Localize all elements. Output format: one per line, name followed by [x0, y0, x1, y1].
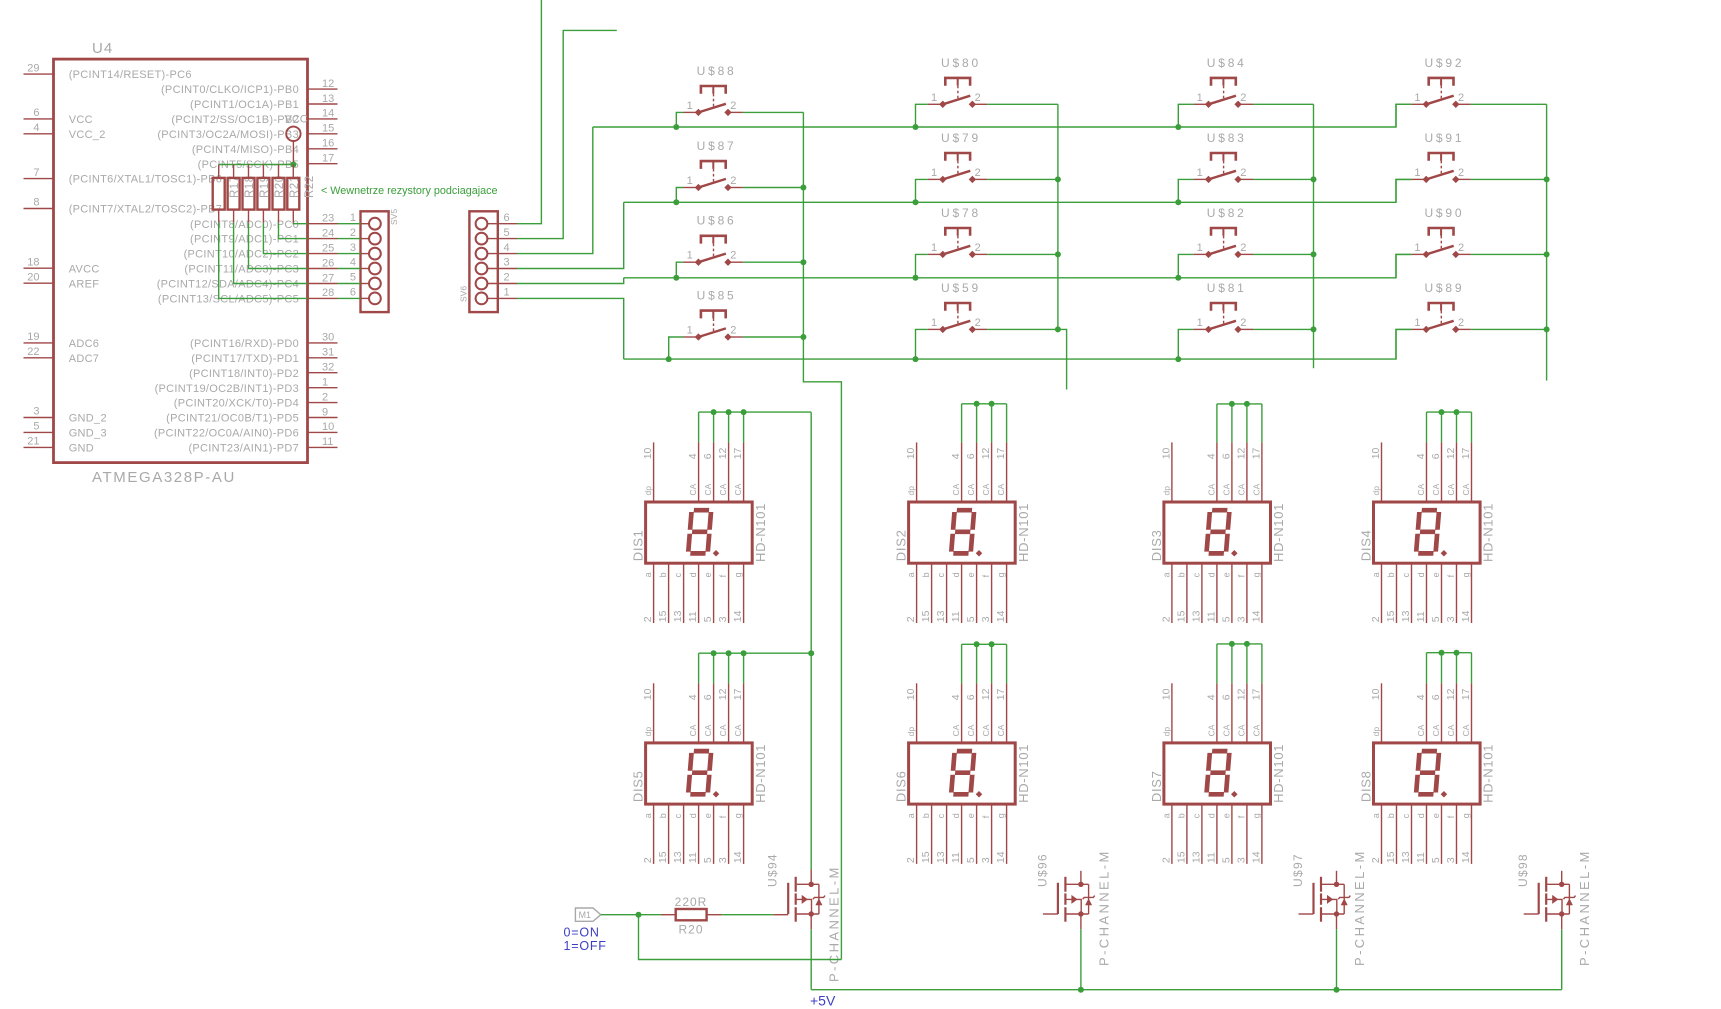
svg-text:d: d	[951, 572, 961, 577]
wire DIS3 CA bar	[1217, 403, 1262, 405]
svg-text:6: 6	[33, 107, 39, 119]
svg-text:12: 12	[717, 688, 729, 700]
svg-text:CA: CA	[966, 724, 976, 736]
svg-text:GND_3: GND_3	[69, 428, 107, 440]
svg-text:2: 2	[1240, 167, 1246, 179]
svg-text:(PCINT13/SCL/ADC5)-PC5: (PCINT13/SCL/ADC5)-PC5	[158, 294, 299, 306]
svg-text:19: 19	[27, 331, 39, 343]
display DIS3 HD-N101	[1149, 442, 1286, 623]
svg-text:DIS6: DIS6	[894, 770, 909, 802]
wire U$84 pin1 to row bus 1	[1178, 104, 1193, 127]
connector SV5 pin 6	[350, 287, 381, 305]
svg-text:1=OFF: 1=OFF	[564, 939, 607, 953]
svg-text:f: f	[1446, 574, 1456, 577]
switch U$78	[928, 206, 987, 258]
wire column 3 stub	[1313, 329, 1315, 368]
svg-text:c: c	[1191, 813, 1201, 818]
connector SV6 pin 5	[476, 227, 517, 245]
junction bus 3 col 1	[673, 275, 679, 281]
junction DIS2 CA bar	[974, 401, 980, 407]
wire U$80 pin1 to row bus 1	[916, 104, 928, 127]
svg-text:13: 13	[1400, 610, 1412, 622]
wire row bus 1	[593, 104, 1412, 127]
svg-text:DIS3: DIS3	[1149, 529, 1164, 561]
svg-text:4: 4	[1415, 694, 1427, 700]
U4 left pin 6 VCC	[24, 118, 54, 120]
wire U4 PC1 to SV5 pin 2	[338, 238, 361, 240]
svg-text:17: 17	[322, 153, 334, 165]
wire U$86 pin2 to column line	[743, 261, 804, 263]
svg-text:2: 2	[1458, 317, 1464, 329]
svg-text:GND_2: GND_2	[69, 413, 107, 425]
svg-text:CA: CA	[703, 724, 713, 736]
junction bus 1 col 2	[913, 124, 919, 130]
connector SV6 pin 6	[476, 212, 517, 230]
junction DIS3 CA bar	[1244, 401, 1250, 407]
svg-text:10: 10	[905, 688, 917, 700]
wire junction to R20	[639, 914, 662, 916]
svg-text:12: 12	[1445, 688, 1457, 700]
svg-text:14: 14	[1460, 851, 1472, 863]
wire R19 to PC3	[249, 223, 308, 269]
svg-text:6: 6	[1430, 694, 1442, 700]
svg-text:10: 10	[1370, 688, 1382, 700]
wire U$81 pin1 to row bus 4	[1178, 329, 1193, 359]
svg-text:CA: CA	[1446, 724, 1456, 736]
svg-text:17: 17	[1460, 447, 1472, 459]
svg-text:DIS1: DIS1	[631, 529, 646, 561]
svg-text:a: a	[1161, 813, 1171, 818]
svg-text:32: 32	[322, 362, 334, 374]
svg-text:2: 2	[730, 175, 736, 187]
svg-text:1: 1	[1197, 242, 1203, 254]
wire U$89 pin2 to column line	[1471, 328, 1547, 330]
junction bus 4 col 2	[913, 356, 919, 362]
transistor U$94 P-CHANNEL-M	[788, 870, 825, 930]
svg-text:CA: CA	[1206, 724, 1216, 736]
svg-text:4: 4	[33, 122, 39, 134]
svg-text:DIS7: DIS7	[1149, 770, 1164, 802]
svg-text:dp: dp	[906, 486, 916, 496]
svg-text:6: 6	[350, 287, 356, 299]
junction +5V rail at U$96	[1078, 987, 1084, 993]
wire U$92 pin2 to column line	[1471, 103, 1547, 105]
wire DIS2 CA drop	[1006, 404, 1008, 443]
wire U$88 pin2 to column line	[743, 111, 804, 113]
connector SV6 pin 3	[476, 257, 517, 275]
svg-text:U$88: U$88	[697, 64, 737, 78]
svg-text:CA: CA	[703, 483, 713, 495]
U4 right pin 16 (PCINT4/MISO)-PB4	[308, 148, 338, 150]
svg-text:(PCINT10/ADC2)-PC2: (PCINT10/ADC2)-PC2	[184, 249, 299, 261]
svg-text:2: 2	[1370, 616, 1382, 622]
svg-text:U$80: U$80	[941, 56, 981, 70]
switch U$84	[1194, 56, 1253, 108]
junction DIS5 CA bar	[808, 650, 814, 656]
U4 right pin 15 (PCINT3/OC2A/MOSI)-PB3	[308, 133, 338, 135]
svg-text:15: 15	[1175, 610, 1187, 622]
svg-text:c: c	[673, 572, 683, 577]
U4 left pin 22 ADC7	[24, 357, 54, 359]
display DIS7 HD-N101	[1149, 683, 1286, 864]
svg-text:5: 5	[504, 227, 510, 239]
svg-text:e: e	[966, 572, 976, 577]
svg-text:15: 15	[920, 610, 932, 622]
junction DIS4 CA bar	[1439, 409, 1445, 415]
svg-text:CA: CA	[1221, 724, 1231, 736]
svg-text:f: f	[981, 815, 991, 818]
svg-text:(PCINT20/XCK/T0)-PD4: (PCINT20/XCK/T0)-PD4	[174, 398, 299, 410]
svg-text:23: 23	[322, 213, 334, 225]
wire row bus 4	[624, 329, 1412, 359]
wire DIS6 CA drop	[976, 644, 978, 683]
wire DIS5 CA drop	[728, 653, 730, 683]
U4 right pin 10 (PCINT22/OC0A/AIN0)-PD6	[308, 431, 338, 433]
DIS5 seven-segment glyph	[688, 751, 711, 794]
wire U$82 pin1 to row bus 3	[1178, 254, 1193, 277]
svg-text:HD-N101: HD-N101	[753, 744, 768, 803]
switch U$79	[928, 131, 987, 183]
svg-text:13: 13	[935, 851, 947, 863]
svg-text:4: 4	[504, 242, 510, 254]
svg-text:e: e	[1431, 572, 1441, 577]
svg-text:7: 7	[33, 167, 39, 179]
wire DIS4 CA drop	[1426, 412, 1428, 442]
svg-text:b: b	[1386, 813, 1396, 818]
svg-text:U$87: U$87	[697, 139, 737, 153]
svg-text:CA: CA	[718, 724, 728, 736]
junction DIS8 CA bar	[1454, 650, 1460, 656]
svg-text:3: 3	[717, 857, 729, 863]
svg-text:c: c	[936, 572, 946, 577]
net flag M1	[575, 908, 600, 921]
wire column line 3	[1313, 104, 1315, 329]
svg-text:AVCC: AVCC	[69, 263, 100, 275]
svg-text:13: 13	[1190, 610, 1202, 622]
junction DIS1 CA bar	[711, 409, 717, 415]
DIS6 seven-segment glyph	[951, 751, 974, 794]
svg-text:13: 13	[672, 610, 684, 622]
wire U$85 pin1 to row bus 4	[669, 337, 684, 359]
connector SV6 body	[469, 211, 497, 312]
wire U$87 pin1 to row bus 2	[676, 188, 683, 203]
svg-text:1: 1	[931, 92, 937, 104]
wire DIS2 CA bar	[962, 403, 1007, 405]
wire U$83 pin1 to row bus 2	[1178, 179, 1193, 202]
svg-text:HD-N101: HD-N101	[1271, 744, 1286, 803]
svg-text:(PCINT16/RXD)-PD0: (PCINT16/RXD)-PD0	[190, 338, 299, 350]
svg-text:220R: 220R	[675, 895, 708, 909]
svg-text:SV6: SV6	[459, 286, 469, 302]
svg-text:dp: dp	[1161, 727, 1171, 737]
wire U$88 pin1 to row bus 1	[676, 112, 683, 127]
svg-text:17: 17	[1460, 688, 1472, 700]
wire SV6 pin1 to row bus 4	[517, 298, 624, 359]
svg-text:5: 5	[33, 421, 39, 433]
svg-text:a: a	[643, 572, 653, 577]
svg-text:2: 2	[1160, 616, 1172, 622]
svg-text:g: g	[1251, 572, 1261, 577]
wire R21 to PC1	[279, 223, 308, 239]
svg-text:HD-N101: HD-N101	[1016, 744, 1031, 803]
resistor R22 (pull-up)	[287, 165, 316, 223]
junction bus 2 col 2	[913, 199, 919, 205]
IC U4 ATMEGA328P-AU body	[54, 59, 308, 463]
svg-text:b: b	[1176, 572, 1186, 577]
junction column line 4 row 3	[1544, 251, 1550, 257]
resistor R17 (pull-up)	[213, 165, 242, 223]
svg-text:11: 11	[687, 611, 699, 622]
wire U$98 drain to +5V rail	[1561, 929, 1563, 989]
svg-text:2: 2	[1240, 317, 1246, 329]
svg-text:14: 14	[1250, 610, 1262, 622]
U4 right pin 11 (PCINT23/AIN1)-PD7	[308, 446, 338, 448]
wire DIS1 CA drop	[713, 412, 715, 442]
svg-text:CA: CA	[1461, 483, 1471, 495]
svg-text:17: 17	[732, 688, 744, 700]
svg-text:14: 14	[1250, 851, 1262, 863]
wire DIS7 CA drop	[1231, 644, 1233, 683]
wire column line 2	[1057, 104, 1059, 329]
svg-text:AREF: AREF	[69, 278, 100, 290]
svg-text:(PCINT18/INT0)-PD2: (PCINT18/INT0)-PD2	[189, 368, 299, 380]
svg-text:(PCINT21/OC0B/T1)-PD5: (PCINT21/OC0B/T1)-PD5	[166, 413, 299, 425]
wire DIS2 CA drop	[961, 404, 963, 443]
svg-text:6: 6	[702, 453, 714, 459]
U4 left pin 20 AREF	[24, 282, 54, 284]
svg-text:4: 4	[687, 694, 699, 700]
svg-text:CA: CA	[1236, 483, 1246, 495]
svg-text:1: 1	[322, 377, 328, 389]
svg-text:VCC: VCC	[285, 113, 308, 125]
svg-text:dp: dp	[906, 727, 916, 737]
svg-text:e: e	[966, 813, 976, 818]
svg-text:3: 3	[717, 616, 729, 622]
svg-text:14: 14	[995, 851, 1007, 863]
wire U$78 pin2 to column line	[987, 253, 1058, 255]
junction column line 3 row 4	[1311, 326, 1317, 332]
junction DIS6 CA bar	[974, 641, 980, 647]
switch U$90	[1411, 206, 1470, 258]
junction column line 3 row 2	[1311, 176, 1317, 182]
svg-text:R22: R22	[304, 175, 316, 198]
switch U$82	[1194, 206, 1253, 258]
svg-text:CA: CA	[1221, 483, 1231, 495]
wire DIS8 CA bar	[1427, 652, 1472, 654]
junction DIS5 CA bar	[726, 650, 732, 656]
connector SV6 pin 4	[476, 242, 517, 260]
svg-text:1: 1	[350, 212, 356, 224]
svg-text:CA: CA	[1431, 483, 1441, 495]
svg-text:b: b	[1176, 813, 1186, 818]
wire U$79 pin2 to column line	[987, 178, 1058, 180]
svg-text:(PCINT17/TXD)-PD1: (PCINT17/TXD)-PD1	[191, 353, 299, 365]
junction DIS3 CA bar	[1229, 401, 1235, 407]
svg-text:CA: CA	[1416, 483, 1426, 495]
svg-text:11: 11	[1415, 852, 1427, 863]
svg-text:14: 14	[322, 108, 334, 120]
svg-text:5: 5	[702, 857, 714, 863]
svg-text:U$78: U$78	[941, 206, 981, 220]
display DIS2 HD-N101	[894, 442, 1031, 623]
svg-text:f: f	[1236, 815, 1246, 818]
svg-text:(PCINT4/MISO)-PB4: (PCINT4/MISO)-PB4	[192, 144, 299, 156]
connector SV5 pin 4	[350, 257, 381, 275]
svg-text:d: d	[688, 572, 698, 577]
svg-text:3: 3	[33, 406, 39, 418]
svg-text:dp: dp	[1371, 727, 1381, 737]
svg-text:dp: dp	[1371, 486, 1381, 496]
connector SV5 pin 1	[350, 212, 381, 230]
wire U$79 pin1 to row bus 2	[916, 179, 928, 202]
U4 left pin 21 GND	[24, 446, 54, 448]
wire U$97 drain to +5V rail	[1336, 929, 1338, 989]
wire DIS8 CA drop	[1456, 653, 1458, 684]
svg-text:U$82: U$82	[1207, 206, 1247, 220]
svg-text:g: g	[733, 813, 743, 818]
svg-text:2: 2	[1160, 857, 1172, 863]
wire SV6 pin4 to row bus 1	[517, 127, 593, 254]
svg-text:13: 13	[1400, 851, 1412, 863]
wire U$90 pin2 to column line	[1471, 253, 1547, 255]
svg-text:U$79: U$79	[941, 131, 981, 145]
svg-text:(PCINT7/XTAL2/TOSC2)-PB7: (PCINT7/XTAL2/TOSC2)-PB7	[69, 204, 223, 216]
svg-text:VCC_2: VCC_2	[69, 129, 106, 141]
svg-text:3: 3	[980, 857, 992, 863]
svg-text:17: 17	[995, 447, 1007, 459]
switch U$87	[684, 139, 743, 191]
junction pull-up rail	[290, 162, 296, 168]
svg-text:U$83: U$83	[1207, 131, 1247, 145]
junction column line 1 row 4	[800, 334, 806, 340]
svg-text:R20: R20	[678, 923, 703, 937]
U4 left pin 8 (PCINT7/XTAL2/TOSC2)-PB7	[24, 208, 54, 210]
wire DIS3 CA drop	[1231, 404, 1233, 443]
junction bus 4 col 1	[666, 356, 672, 362]
svg-text:12: 12	[1445, 447, 1457, 459]
svg-text:1: 1	[687, 100, 693, 112]
wire DIS5 CA drop	[713, 653, 715, 683]
junction DIS5 CA bar	[711, 650, 717, 656]
junction DIS1 CA bar	[741, 409, 747, 415]
wire column 1 to gate net	[803, 337, 841, 960]
svg-text:14: 14	[732, 610, 744, 622]
svg-text:31: 31	[322, 347, 334, 359]
wire U$86 pin1 to row bus 3	[676, 262, 683, 278]
svg-text:2: 2	[504, 272, 510, 284]
DIS1 seven-segment glyph	[688, 510, 711, 553]
svg-text:2: 2	[730, 325, 736, 337]
wire column line 4	[1546, 104, 1548, 329]
svg-text:9: 9	[322, 406, 328, 418]
svg-text:CA: CA	[1461, 724, 1471, 736]
terminal circle on PB3 net	[286, 127, 300, 141]
junction column line 1 row 3	[800, 259, 806, 265]
switch U$80	[928, 56, 987, 108]
wire U$78 pin1 to row bus 3	[916, 254, 928, 277]
svg-text:M1: M1	[579, 910, 592, 920]
wire DIS6 CA drop	[991, 644, 993, 683]
svg-text:2: 2	[975, 92, 981, 104]
wire PB3 circle to pull-up rail	[292, 141, 294, 165]
svg-text:g: g	[1461, 572, 1471, 577]
svg-text:4: 4	[950, 453, 962, 459]
svg-text:(PCINT6/XTAL1/TOSC1)-PB6: (PCINT6/XTAL1/TOSC1)-PB6	[69, 174, 223, 186]
wire U$80 pin2 to column line	[987, 103, 1058, 105]
svg-text:(PCINT2/SS/OC1B)-PB2: (PCINT2/SS/OC1B)-PB2	[171, 114, 299, 126]
wire DIS4 CA drop	[1456, 412, 1458, 442]
svg-text:15: 15	[920, 851, 932, 863]
svg-text:29: 29	[27, 62, 39, 74]
wire DIS8 CA drop	[1426, 653, 1428, 684]
wire SV6 pin5 stub	[517, 30, 617, 238]
svg-text:d: d	[1416, 813, 1426, 818]
svg-text:SV5: SV5	[389, 209, 399, 225]
U4 right pin 28 (PCINT13/SCL/ADC5)-PC5	[308, 297, 338, 299]
svg-text:VCC: VCC	[69, 114, 93, 126]
wire DIS1 CA drop	[728, 412, 730, 442]
transistor U$98 P-CHANNEL-M	[1524, 871, 1576, 930]
svg-text:1: 1	[1197, 167, 1203, 179]
U4 right pin 32 (PCINT18/INT0)-PD2	[308, 372, 338, 374]
svg-text:ADC7: ADC7	[69, 353, 100, 365]
svg-text:CA: CA	[1251, 483, 1261, 495]
wire DIS6 CA drop	[961, 644, 963, 683]
svg-text:U$89: U$89	[1424, 281, 1464, 295]
svg-text:12: 12	[1235, 688, 1247, 700]
DIS2 seven-segment glyph	[951, 510, 974, 553]
junction DIS2 CA bar	[989, 401, 995, 407]
svg-text:CA: CA	[688, 724, 698, 736]
svg-text:11: 11	[1205, 852, 1217, 863]
svg-text:2: 2	[350, 227, 356, 239]
svg-text:CA: CA	[981, 483, 991, 495]
junction bus 4 col 3	[1175, 356, 1181, 362]
svg-text:3: 3	[1235, 857, 1247, 863]
svg-text:4: 4	[950, 694, 962, 700]
junction bus 3 col 3	[1175, 275, 1181, 281]
svg-text:10: 10	[322, 421, 334, 433]
svg-text:5: 5	[702, 616, 714, 622]
svg-text:2: 2	[1458, 242, 1464, 254]
svg-text:5: 5	[1220, 857, 1232, 863]
svg-text:d: d	[688, 813, 698, 818]
U4 right pin 1 (PCINT19/OC2B/INT1)-PD3	[308, 387, 338, 389]
svg-text:16: 16	[322, 138, 334, 150]
svg-text:f: f	[1236, 574, 1246, 577]
svg-text:2: 2	[1240, 92, 1246, 104]
svg-text:1: 1	[687, 250, 693, 262]
svg-text:10: 10	[1160, 447, 1172, 459]
svg-text:1: 1	[1197, 317, 1203, 329]
wire U$89 pin1 to row bus 4	[1396, 329, 1411, 359]
junction +5V rail at U$97	[1334, 987, 1340, 993]
U4 left pin 29 (PCINT14/RESET)-PC6	[24, 73, 54, 75]
U4 right pin 9 (PCINT21/OC0B/T1)-PD5	[308, 417, 338, 419]
svg-text:2: 2	[975, 167, 981, 179]
wire U4 PC2 to SV5 pin 3	[338, 253, 361, 255]
wire DIS7 CA drop	[1261, 644, 1263, 683]
svg-text:P-CHANNEL-M: P-CHANNEL-M	[1352, 849, 1367, 966]
svg-text:5: 5	[350, 272, 356, 284]
U4 right pin 24 (PCINT9/ADC1)-PC1	[308, 238, 338, 240]
wire DIS7 CA drop	[1246, 644, 1248, 683]
svg-text:5: 5	[1430, 857, 1442, 863]
svg-text:22: 22	[27, 346, 39, 358]
wire U$90 pin1 to row bus 3	[1396, 254, 1411, 277]
svg-text:dp: dp	[643, 727, 653, 737]
svg-text:(PCINT14/RESET)-PC6: (PCINT14/RESET)-PC6	[69, 69, 192, 81]
